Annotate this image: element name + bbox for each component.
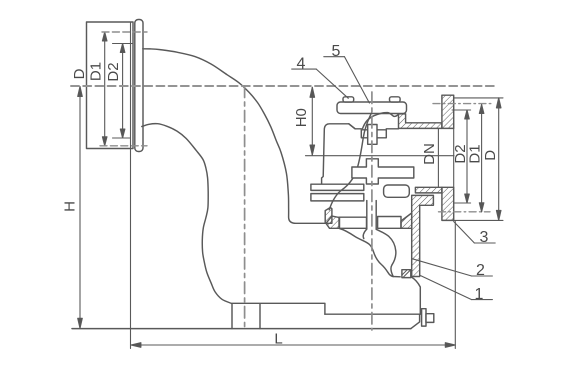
outlet elbow corner piece (hatched) <box>412 195 434 276</box>
guide hatch right <box>401 213 412 228</box>
svg-text:5: 5 <box>332 43 341 60</box>
svg-text:D2: D2 <box>105 62 122 81</box>
valve body top line <box>349 124 399 129</box>
svg-text:1: 1 <box>475 286 484 303</box>
guide bar right <box>378 217 401 229</box>
outlet bottom wall bar (hatched) <box>415 187 442 193</box>
outlet top wall bar (hatched) <box>399 114 442 128</box>
D extension bottom right <box>454 219 503 221</box>
dimension D2 right <box>465 110 470 203</box>
bolt hole centerline bottom left flange <box>100 145 147 147</box>
lever arm curve <box>329 113 371 210</box>
outlet bore lines <box>438 128 453 187</box>
hinge bracket lower (hatched) <box>326 216 340 228</box>
outlet flange top block (hatched) <box>442 95 454 128</box>
dimension H <box>78 87 83 329</box>
valve stem upper <box>368 125 377 145</box>
drain pipe end cap <box>422 309 426 326</box>
bonnet plate upper <box>311 184 364 190</box>
valve body hump left <box>322 124 356 184</box>
svg-text:H0: H0 <box>293 108 310 127</box>
svg-text:D: D <box>482 150 499 161</box>
svg-text:H: H <box>61 201 78 212</box>
stem cross piece <box>352 159 414 184</box>
callout 3 <box>454 222 496 244</box>
extension line L right <box>454 222 456 349</box>
flange left (inlet) body <box>87 22 134 149</box>
elbow inner wall curve <box>142 124 232 304</box>
diaphragm wave under cap <box>363 113 399 129</box>
svg-text:4: 4 <box>297 56 306 73</box>
bolt hole centerline top left flange <box>102 31 147 33</box>
callout 2 <box>412 259 492 276</box>
disc stem flare left <box>363 229 367 239</box>
base box left <box>232 303 325 328</box>
svg-text:3: 3 <box>480 229 489 246</box>
centerline horizontal main axis <box>71 85 495 87</box>
hinge bracket upper (hatched) <box>325 208 332 224</box>
callout 4 <box>292 69 349 98</box>
disc body bulge <box>376 229 396 276</box>
dimension H0 <box>310 87 315 155</box>
dimension D right <box>496 98 501 220</box>
bolt centerline top right flange <box>433 103 494 105</box>
svg-text:D1: D1 <box>87 62 104 81</box>
dimension L <box>131 343 455 348</box>
svg-text:2: 2 <box>476 262 485 279</box>
centerline vertical elbow axis <box>244 86 246 329</box>
dimension D2 left <box>120 44 125 139</box>
cap lug left <box>343 97 354 102</box>
extension line L left <box>130 23 132 349</box>
D2 extent line top left flange <box>113 43 134 45</box>
guide bar left <box>339 217 367 228</box>
svg-text:D: D <box>71 68 88 79</box>
D2 extent line bottom left flange <box>113 137 131 139</box>
flange left raised face strip <box>135 20 143 152</box>
callout 1 <box>421 276 493 300</box>
drain pipe bottom <box>325 314 422 328</box>
D2 extent top right <box>452 109 471 111</box>
bonnet plate lower <box>311 194 364 201</box>
disc upper-left curve <box>340 229 401 277</box>
svg-text:DN: DN <box>421 143 438 165</box>
callout 5 <box>324 57 370 103</box>
stem lower left line <box>366 201 368 229</box>
bolt centerline bottom right flange <box>439 211 491 213</box>
drain outlet right wall <box>411 277 420 314</box>
elbow outer wall curve <box>143 49 325 224</box>
DN axis line <box>306 155 455 157</box>
top cap (cover) <box>337 102 407 114</box>
seat ring (hatched) <box>402 270 411 278</box>
gland nut <box>361 130 386 138</box>
centerline valve stem axis <box>371 92 373 330</box>
cap lug right <box>390 97 401 102</box>
outlet flange bottom block (hatched) <box>442 187 454 220</box>
rounded boss right <box>384 185 410 197</box>
dimension D1 right <box>479 105 484 212</box>
D extension top right <box>454 97 503 99</box>
svg-text:L: L <box>274 331 282 348</box>
D2 extent bottom right <box>455 202 471 204</box>
drain pipe end knob <box>426 314 434 323</box>
dimension D1 left <box>102 32 107 146</box>
base ground line <box>72 328 411 330</box>
stem lower right line <box>375 201 377 229</box>
